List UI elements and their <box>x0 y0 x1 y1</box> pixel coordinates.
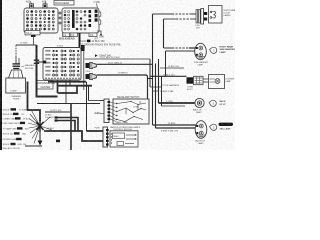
splice wire label rows <box>3 108 31 150</box>
connector A top tabs <box>26 1 47 8</box>
wire arrow to right of B <box>97 31 104 39</box>
splice right labels <box>45 115 54 133</box>
connector B bottom labels <box>63 33 98 37</box>
back-up lamp <box>193 98 204 114</box>
convenience center label <box>37 81 56 90</box>
splice S300 center <box>37 121 44 132</box>
washer pump label <box>22 64 35 70</box>
vertical harness bus wires <box>150 14 166 128</box>
PRNDL connector plug <box>195 9 207 30</box>
label box above blocks <box>54 0 74 5</box>
labelled wire row <box>45 110 70 112</box>
long wire to license connector <box>150 75 187 77</box>
PRNDL lamp box <box>209 6 223 24</box>
license lamp box <box>203 75 225 89</box>
scan edge bar <box>0 0 2 150</box>
wire run B: to splice <box>28 82 41 122</box>
scan noise overlay <box>0 0 1 1</box>
bus wires under fuse block <box>48 80 104 131</box>
bottom short wire <box>25 145 42 147</box>
wire to bus from upper connector <box>97 63 153 65</box>
side marker callout <box>210 47 217 53</box>
connector B top label <box>94 0 101 8</box>
tail callout <box>210 124 217 130</box>
splice S300 rays <box>28 110 52 144</box>
washer pump <box>6 63 26 100</box>
vertical drop wire <box>70 104 72 151</box>
back-up callout <box>209 100 216 106</box>
license lamp connector <box>187 76 204 91</box>
tail lamp label block <box>219 123 234 131</box>
wire with corner into switch <box>97 75 148 99</box>
connector C100 body B <box>62 8 99 33</box>
connector B edge bumps <box>99 12 101 16</box>
thin labelled wire from fuse block <box>85 57 150 59</box>
fuse block <box>43 45 81 80</box>
labelled wire mid right <box>160 66 184 68</box>
inline connectors right of fuse block <box>86 62 97 73</box>
connector B black pin bars <box>72 10 75 28</box>
note text rows <box>81 37 122 57</box>
gap pins between A and B <box>59 12 61 24</box>
stair wire bottom <box>44 131 103 141</box>
back-up lamp wire <box>159 102 195 104</box>
black tab right of fuse block top <box>81 45 85 51</box>
wires to side marker <box>164 48 196 51</box>
long horizontal wire <box>37 103 100 105</box>
wire from C100 B down to fuse block <box>79 33 81 48</box>
splice down arrow <box>38 132 43 146</box>
wire to PRNDL top <box>153 14 197 19</box>
stub labels on bus <box>150 84 180 93</box>
inline connector marks <box>34 60 39 61</box>
connector C220 at headlamp switch <box>95 99 111 129</box>
connector A bottom label <box>25 31 40 38</box>
headlamp switch <box>110 96 149 124</box>
tail lamp wires <box>153 124 198 126</box>
side marker lamp <box>194 43 208 66</box>
dimmer control switch box <box>110 126 141 147</box>
wire run A: down from top harness to lower bus <box>34 45 58 97</box>
connector C100 body A <box>24 8 58 33</box>
bold pair wires <box>55 116 79 131</box>
washer pump feed wires <box>16 36 37 64</box>
C240 connector bottom <box>103 127 109 147</box>
tail lamp <box>195 121 207 145</box>
